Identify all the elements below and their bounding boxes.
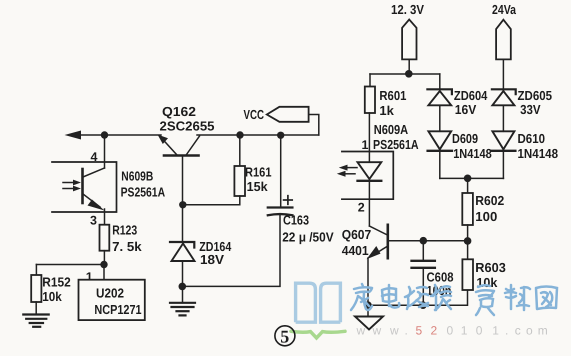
node ZD164/C163 return xyxy=(179,283,187,291)
svg-text:R601: R601 xyxy=(379,88,406,103)
svg-text:R123: R123 xyxy=(112,223,137,238)
svg-text:7. 5k: 7. 5k xyxy=(112,239,142,254)
char liao xyxy=(505,285,530,310)
svg-text:D609: D609 xyxy=(452,131,478,146)
svg-text:1k: 1k xyxy=(379,103,394,118)
svg-text:m: m xyxy=(538,324,548,338)
wire 12.3V rail xyxy=(370,73,440,75)
svg-text:ZD605: ZD605 xyxy=(518,88,553,103)
wire bus right of Q162 xyxy=(197,134,319,136)
svg-text:1: 1 xyxy=(461,324,468,338)
node bus R161 xyxy=(236,131,243,138)
svg-text:5: 5 xyxy=(280,327,289,347)
node base/R602/R603 xyxy=(464,237,472,245)
connector 24Va xyxy=(492,2,517,89)
svg-text:R152: R152 xyxy=(42,274,71,289)
phototransistor N609B xyxy=(63,168,105,211)
svg-text:15k: 15k xyxy=(247,179,269,194)
wire R601 to pin 1 xyxy=(368,113,370,162)
VCC tag xyxy=(244,107,309,122)
resistor R161 15k xyxy=(234,135,271,196)
node bus C163 xyxy=(277,132,284,139)
transistor Q607 4401 xyxy=(342,225,388,259)
ground triangle below Q607 xyxy=(355,317,383,330)
wire ZD164 anode down xyxy=(182,261,184,303)
svg-text:w: w xyxy=(356,324,366,338)
svg-text:4401: 4401 xyxy=(342,243,369,258)
svg-text:NCP1271: NCP1271 xyxy=(94,302,141,317)
connector 12.3V xyxy=(391,2,424,74)
node C608 bottom xyxy=(419,301,427,309)
svg-text:1: 1 xyxy=(362,138,369,152)
resistor R601 1k xyxy=(365,74,407,118)
svg-text:4: 4 xyxy=(91,150,98,164)
LED N609A xyxy=(337,162,382,181)
node 12.3V rail xyxy=(405,70,413,78)
diode D609 1N4148 xyxy=(428,131,492,161)
char zi xyxy=(476,285,494,315)
wire C163 return xyxy=(182,215,280,286)
wire ZD604 to D609 xyxy=(439,105,441,131)
ground below R152 xyxy=(23,315,48,327)
wire bottom return line xyxy=(368,290,468,305)
char xiu xyxy=(431,285,451,310)
wire D609 down xyxy=(439,151,441,179)
svg-text:33V: 33V xyxy=(520,102,541,117)
char wei xyxy=(405,287,428,309)
svg-text:0: 0 xyxy=(447,324,454,338)
node R123/R152/U202 xyxy=(100,261,107,268)
char dian xyxy=(382,285,399,308)
ground below ZD164 xyxy=(170,303,195,316)
svg-text:ZD604: ZD604 xyxy=(454,88,488,103)
wire junction left to R152 xyxy=(36,264,104,266)
svg-text:22 μ /50V: 22 μ /50V xyxy=(282,230,334,245)
diode D610 1N4148 xyxy=(491,131,558,161)
svg-text:2: 2 xyxy=(358,201,365,215)
svg-text:U202: U202 xyxy=(96,286,124,301)
svg-text:5: 5 xyxy=(416,324,423,338)
svg-text:.: . xyxy=(405,324,408,338)
svg-text:12. 3V: 12. 3V xyxy=(391,2,424,17)
wire diode bottom link xyxy=(440,177,504,179)
svg-text:3: 3 xyxy=(90,214,97,228)
svg-text:R603: R603 xyxy=(475,260,506,275)
svg-text:.: . xyxy=(505,324,508,338)
svg-text:N609B: N609B xyxy=(121,168,153,183)
svg-text:10k: 10k xyxy=(42,289,62,304)
watermark book icon xyxy=(296,283,341,322)
wire pin 2 xyxy=(368,181,370,226)
wire junction down to U202 pin 1 xyxy=(103,265,105,280)
transistor Q162 xyxy=(158,104,215,156)
char jia xyxy=(351,284,372,310)
svg-text:Q607: Q607 xyxy=(342,227,372,242)
node emitter/ground line xyxy=(364,301,372,309)
wire R161 bottom to base junction xyxy=(183,196,240,205)
capacitor C608 100n xyxy=(412,241,454,306)
node R602 top xyxy=(464,175,472,183)
svg-text:w: w xyxy=(389,324,399,338)
IC U202 NCP1271 xyxy=(79,280,145,320)
svg-text:c: c xyxy=(515,324,521,338)
svg-text:0: 0 xyxy=(476,324,483,338)
svg-text:1N4148: 1N4148 xyxy=(453,146,492,161)
svg-text:18V: 18V xyxy=(200,252,224,267)
wire R123 to junction xyxy=(103,251,105,265)
svg-text:PS2561A: PS2561A xyxy=(373,137,419,152)
wire pin 4 xyxy=(104,135,106,168)
node bus pin4 xyxy=(101,131,108,138)
watermark chinese characters xyxy=(351,284,557,315)
watermark green swoosh xyxy=(291,331,345,338)
zener ZD164 18V xyxy=(170,239,232,267)
svg-text:R161: R161 xyxy=(245,165,272,180)
svg-text:1N4148: 1N4148 xyxy=(518,146,559,161)
resistor R123 7.5k xyxy=(100,223,143,254)
arrow left end of bus xyxy=(65,131,82,140)
svg-text:R602: R602 xyxy=(475,193,504,208)
svg-text:16V: 16V xyxy=(455,102,477,117)
resistor R152 10k xyxy=(31,265,71,304)
svg-text:Q162: Q162 xyxy=(162,104,196,119)
zener ZD605 33V xyxy=(492,88,552,117)
node base/R161 junction xyxy=(179,201,186,208)
svg-text:2: 2 xyxy=(431,324,438,338)
optocoupler U-N609A box xyxy=(342,152,393,200)
resistor R602 100 xyxy=(462,178,504,240)
svg-text:100: 100 xyxy=(475,209,497,224)
svg-text:24Va: 24Va xyxy=(492,2,517,17)
node C608 top xyxy=(420,237,428,245)
wire R152 to ground xyxy=(35,302,37,315)
wire main bus top-left xyxy=(76,134,161,136)
optocoupler U-N609A labels xyxy=(373,122,419,152)
svg-text:o: o xyxy=(526,324,533,338)
svg-text:PS2561A: PS2561A xyxy=(121,184,166,199)
wire pin 3 xyxy=(104,209,106,225)
svg-text:w: w xyxy=(372,324,382,338)
svg-text:N609A: N609A xyxy=(374,122,409,137)
svg-text:10k: 10k xyxy=(476,275,498,290)
char wang xyxy=(536,287,557,310)
watermark url www.520101.com xyxy=(356,324,548,338)
optocoupler U-N609B box xyxy=(52,162,166,212)
resistor R603 10k xyxy=(462,241,505,290)
svg-text:C163: C163 xyxy=(283,212,309,227)
wire ZD605 to D610 xyxy=(502,105,504,131)
wire VCC drop xyxy=(309,115,319,136)
zener ZD604 16V xyxy=(427,74,488,117)
svg-text:VCC: VCC xyxy=(244,107,265,122)
wire Q607 base line xyxy=(389,240,468,242)
capacitor C163 22u/50V xyxy=(268,135,334,245)
svg-text:1: 1 xyxy=(492,324,499,338)
figure number 5 xyxy=(275,326,295,347)
svg-text:D610: D610 xyxy=(518,131,546,146)
svg-text:2SC2655: 2SC2655 xyxy=(160,119,215,134)
wire Q162 base down to ZD164 xyxy=(182,156,184,243)
wire D610 down xyxy=(502,151,504,179)
wire Q607 emitter down xyxy=(367,258,369,317)
